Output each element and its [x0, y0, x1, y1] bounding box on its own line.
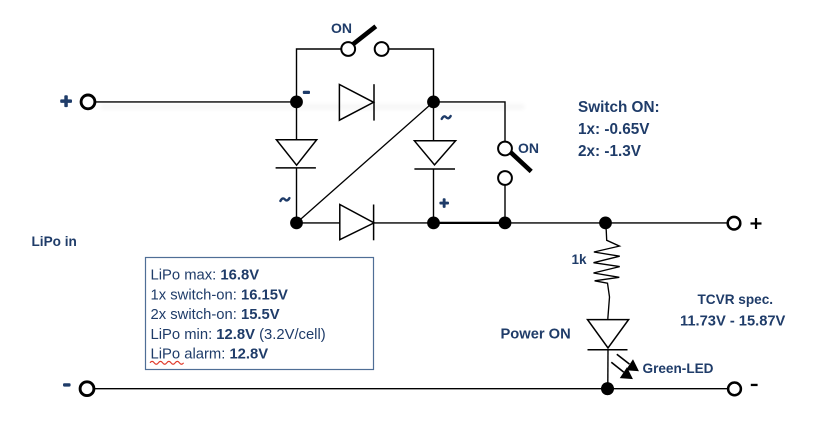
node A (junction dot): [290, 96, 303, 109]
label + polarity at node D: [439, 198, 449, 208]
node D (junction dot): [427, 217, 440, 230]
label + (LiPo positive input): [60, 95, 72, 107]
wire node C to diode D3: [297, 222, 340, 224]
wire diode D4 to node D: [433, 169, 435, 223]
node G (junction dot): [601, 382, 614, 395]
label - (LiPo negative input): [63, 383, 71, 386]
node E (junction dot): [499, 217, 512, 230]
node F (resistor tap junction dot): [599, 217, 612, 230]
label + output (black): [751, 218, 762, 229]
svg-text:2x: -1.3V: 2x: -1.3V: [578, 143, 642, 160]
terminal + input: [81, 95, 95, 109]
svg-text:Power ON: Power ON: [501, 327, 571, 343]
info box text lines: [151, 268, 326, 363]
svg-text:ON: ON: [518, 140, 539, 156]
terminal - input: [80, 382, 94, 396]
node G dot redrawn over rail: [601, 382, 614, 395]
spellcheck squiggle under LiPo (alarm line): [150, 361, 184, 364]
wire switch S1 to node B rail: [389, 49, 434, 102]
svg-text:LiPo in: LiPo in: [32, 234, 77, 249]
resistor R1 1k (zigzag): [594, 228, 620, 319]
svg-text:1k: 1k: [572, 252, 588, 267]
svg-text:1x switch-on: 16.15V: 1x switch-on: 16.15V: [151, 287, 288, 303]
switch S1 (bypass switch, open): [341, 26, 388, 56]
label - output (black): [751, 384, 758, 386]
label ~ at node B: [442, 116, 451, 119]
wire LED to node G: [607, 350, 609, 389]
wire node B to switch S2: [434, 102, 506, 142]
LED emission arrows: [611, 354, 637, 378]
wire node A up to switch S1 rail: [297, 49, 342, 102]
svg-text:LiPo max: 16.8V: LiPo max: 16.8V: [151, 268, 260, 284]
diode D2 (left leg, pointing down): [276, 140, 317, 168]
node C (junction dot): [290, 217, 303, 230]
svg-text:2x switch-on: 15.5V: 2x switch-on: 15.5V: [151, 307, 280, 323]
svg-text:11.73V - 15.87V: 11.73V - 15.87V: [680, 314, 786, 330]
wire diode D2 to node C: [296, 168, 298, 223]
wire node A down to diode D2: [296, 102, 298, 140]
wire shadow artifact under top input wire: [100, 104, 525, 110]
diode D1 (top, node A to node B): [339, 84, 374, 120]
svg-text:LiPo alarm: 12.8V: LiPo alarm: 12.8V: [151, 347, 269, 363]
node B (junction dot): [427, 96, 440, 109]
wire diode D3 to node D: [374, 222, 434, 224]
text TCVR spec: [680, 292, 786, 330]
wire input + terminal to node A: [96, 101, 297, 103]
svg-text:Switch ON:: Switch ON:: [578, 99, 660, 116]
svg-text:LiPo min: 12.8V (3.2V/cell): LiPo min: 12.8V (3.2V/cell): [151, 327, 326, 343]
diode D3 (bottom, node C to node D): [340, 205, 374, 241]
diode D4 (right leg, pointing down): [414, 141, 455, 169]
wire node E to + output terminal: [505, 222, 728, 224]
LED D5 Power ON (pointing down): [588, 320, 629, 350]
wire switch S2 to node E: [504, 185, 506, 223]
text block Switch ON voltages: [578, 99, 660, 160]
label - polarity at node A: [303, 91, 310, 94]
svg-text:ON: ON: [331, 20, 352, 36]
info box LiPo data: [146, 258, 374, 370]
wire bottom rail - input to - output: [95, 388, 729, 390]
switch S2 (series switch, open): [498, 142, 531, 185]
svg-text:1x: -0.65V: 1x: -0.65V: [578, 121, 650, 138]
terminal + output: [728, 217, 741, 230]
terminal - output: [728, 383, 741, 396]
svg-text:Green-LED: Green-LED: [643, 361, 714, 376]
wire node D to node E (thick): [434, 222, 506, 224]
label ~ at node C: [280, 198, 289, 201]
svg-text:TCVR spec.: TCVR spec.: [698, 292, 774, 307]
wire diagonal node B to node C: [297, 102, 434, 223]
wire node B down to diode D4: [433, 102, 435, 141]
